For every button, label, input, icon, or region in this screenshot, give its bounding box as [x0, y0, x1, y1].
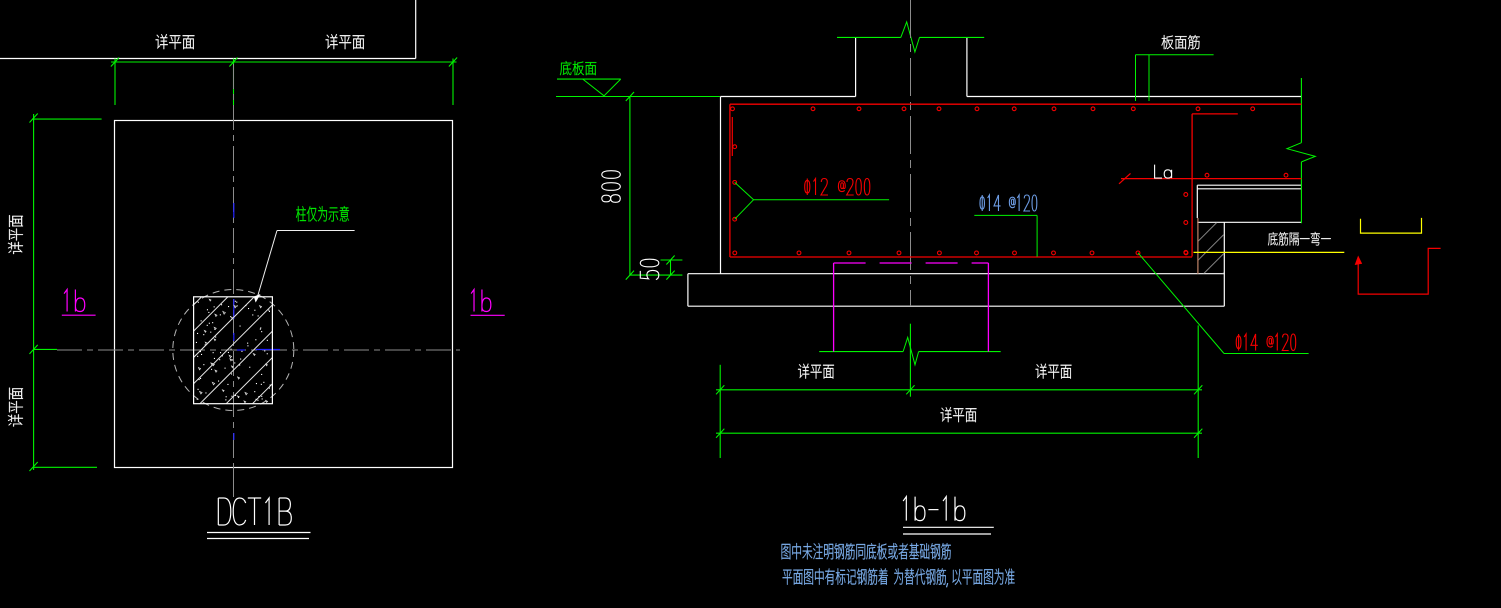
dim text 详平面 row1 left — [798, 364, 834, 379]
rotated dimension text 详平面 lower-left — [8, 388, 23, 427]
bent bar symbol yellow — [1361, 218, 1422, 233]
dimension text 详平面 top-right — [326, 34, 365, 49]
left dim stub top — [34, 118, 102, 120]
tick top-right — [449, 57, 457, 66]
tick top-mid — [229, 57, 237, 66]
slab break line right lower — [1300, 162, 1302, 223]
horizontal centerline of plan — [57, 349, 460, 351]
label La — [1155, 165, 1172, 179]
slab top bar leader vertical 2 — [1148, 55, 1150, 101]
column break line right — [919, 351, 1001, 353]
La line end tick — [1119, 173, 1131, 183]
blinding layer bottom — [688, 305, 1224, 307]
title underline 1 — [207, 532, 311, 534]
tick 800 top — [626, 92, 634, 101]
column axis blue dash vertical 4 — [233, 433, 235, 440]
tick dim1 mid — [906, 385, 914, 394]
top dimension extension line left — [114, 59, 116, 106]
tick 800 bottom — [626, 271, 634, 280]
dimension 800 line — [629, 97, 631, 276]
label Φ14@120 red — [1236, 334, 1295, 351]
left dim stub bottom — [34, 466, 97, 468]
sheet border top edge — [0, 58, 416, 60]
top dimension extension line right — [452, 59, 454, 106]
top of slab level line — [556, 96, 720, 98]
slab top bar leader shelf — [1136, 54, 1214, 56]
leader underline — [277, 230, 355, 232]
anchorage La line — [1121, 178, 1301, 180]
leader bottom bar diagonal — [1138, 253, 1224, 354]
column axis blue dash vertical 3 — [233, 333, 235, 341]
title 1b-1b — [903, 497, 965, 521]
wall break zigzag — [901, 22, 920, 52]
dimension text 详平面 top-left — [156, 34, 195, 49]
left dimension line — [33, 114, 35, 470]
footing outline rectangle — [115, 121, 453, 468]
dim text 详平面 row1 right — [1036, 364, 1072, 379]
adjacent slab bottom — [1197, 221, 1301, 223]
top rebar section dots — [731, 107, 735, 111]
level symbol triangle — [583, 79, 621, 96]
leader bottom bar shelf — [1224, 353, 1309, 355]
column axis blue dash vertical 2 — [233, 299, 235, 319]
leader for Φ12@200 branch 2 — [735, 200, 754, 220]
tick dim1 right — [1194, 385, 1202, 394]
tick dim2 left — [716, 429, 724, 438]
slab top bar leader vertical 1 — [1135, 55, 1137, 101]
title DCT1B — [218, 498, 291, 525]
column break zigzag — [903, 337, 919, 364]
cage left edge bar — [729, 104, 731, 257]
wall left edge — [855, 37, 857, 96]
tick dim1 left — [716, 385, 724, 394]
pile cap left edge — [720, 97, 722, 274]
bent-down bar top leg — [1192, 113, 1238, 115]
dimension text 800 — [602, 171, 620, 203]
label 板面筋 — [1162, 35, 1200, 49]
tick dim2 right — [1194, 429, 1202, 438]
lower dimension line 2 — [716, 432, 1202, 434]
adjacent slab top line 2 — [1197, 188, 1301, 190]
leader for Φ12@200 branch 1 — [735, 182, 754, 199]
leader for Φ12@200 shelf — [754, 199, 890, 201]
label 底筋隔一弯一 — [1268, 232, 1331, 246]
leader arrowhead — [254, 295, 260, 302]
label Φ12@200 — [805, 179, 870, 196]
dimension 50 extension stub — [661, 259, 683, 261]
hidden column outline left — [833, 263, 835, 352]
title underline 2 — [207, 538, 309, 540]
column axis blue dash vertical 1 — [233, 203, 235, 218]
section centerline — [910, 0, 912, 306]
tick left-bottom — [29, 462, 37, 471]
hidden column dashed top — [834, 262, 989, 264]
note line 1 — [782, 543, 951, 560]
column break axis line — [909, 324, 911, 397]
column break line left — [819, 351, 903, 353]
wall break line — [837, 36, 901, 38]
column section border — [194, 297, 273, 404]
section mark 1b right — [471, 290, 491, 312]
rotated dimension text 详平面 upper-left — [8, 215, 23, 254]
bent bar symbol red arrowhead — [1355, 257, 1361, 265]
adjacent slab left edge — [1196, 185, 1198, 218]
wall break line right — [920, 36, 985, 38]
dim text 详平面 row2 — [941, 407, 977, 422]
slab break zigzag right — [1287, 143, 1315, 162]
bent-down bar vertical — [1191, 114, 1193, 257]
slab edge lower part — [1197, 218, 1199, 274]
top rebar line — [730, 103, 1302, 105]
dim extension left — [719, 365, 721, 458]
bent bar symbol red — [1358, 248, 1440, 294]
tick 50 bottom — [666, 271, 674, 280]
section mark 1b left underline — [62, 314, 96, 316]
top dimension line — [111, 61, 457, 63]
bottom rebar line — [730, 256, 1192, 258]
dimension 50 line — [670, 260, 672, 275]
sheet border right edge — [415, 0, 417, 59]
plan centerline below rectangle — [233, 468, 235, 498]
leader blue vertical — [1036, 215, 1038, 256]
pile cap top surface right — [967, 96, 1302, 98]
pile cap top surface left — [721, 96, 856, 98]
label 柱仅为示意 — [296, 206, 349, 222]
left dim stub mid — [34, 348, 57, 350]
top bar end hook — [731, 117, 733, 156]
lower dimension line 1 — [716, 389, 1202, 391]
slab break line right upper — [1300, 78, 1302, 143]
tick top-left — [111, 57, 119, 66]
hidden column outline right — [987, 263, 989, 352]
column axis blue dash horizontal 2 — [256, 349, 280, 351]
dimension 50 bottom extension — [630, 274, 683, 276]
title 1b-1b underline 2 — [903, 533, 991, 535]
bottom rebar section dots — [733, 251, 737, 255]
tick left-top — [29, 113, 37, 122]
tick 50 top — [666, 255, 674, 264]
section mark 1b left — [64, 290, 85, 312]
section mark 1b right underline — [471, 314, 505, 316]
blinding layer right edge — [1223, 222, 1225, 306]
La level bar dots — [1205, 173, 1209, 177]
pile cap bottom / blinding top — [688, 273, 1224, 275]
wall right edge — [966, 37, 968, 96]
leader blue shelf — [974, 214, 1037, 216]
dim extension right — [1197, 325, 1199, 458]
tick left-mid — [29, 345, 37, 354]
leader line to column — [257, 231, 278, 301]
right bent bar dots — [1184, 193, 1188, 197]
blinding layer left edge — [687, 274, 689, 307]
level label 底板面 — [560, 61, 596, 75]
column axis blue dash horizontal 1 — [237, 349, 245, 351]
adjacent slab top line 1 — [1197, 184, 1301, 186]
dimension text 50 — [640, 259, 658, 279]
vertical centerline of plan — [233, 64, 235, 497]
bottom bar yellow line — [1194, 251, 1345, 253]
top dimension extension line mid — [233, 59, 235, 106]
left face bar dots — [733, 145, 737, 149]
label Φ14@120 blue — [980, 195, 1037, 211]
dashed circle around column — [173, 290, 294, 411]
title 1b-1b underline 1 — [903, 526, 994, 528]
note line 2 — [783, 568, 1015, 587]
level symbol bar — [557, 78, 621, 80]
